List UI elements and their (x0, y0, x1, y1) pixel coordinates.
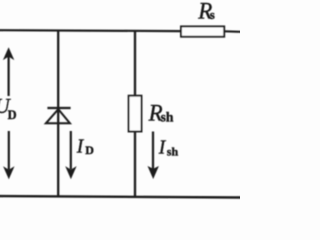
svg-text:sh: sh (167, 145, 179, 159)
diode D cathode bar (47, 107, 70, 109)
svg-text:sh: sh (161, 110, 174, 125)
I_D down arrow shaft (70, 131, 72, 169)
U_D up arrow shaft (8, 56, 10, 96)
diode D triangle (46, 109, 70, 123)
svg-text:I: I (76, 137, 85, 158)
wire top rail left segment (0, 29, 181, 32)
resistor R_s box (181, 26, 224, 36)
wire Rsh branch vertical bottom (134, 132, 136, 198)
svg-text:s: s (210, 7, 215, 22)
resistor R_sh box (129, 96, 142, 132)
I_D down arrow head (65, 166, 76, 179)
U_D down arrow head (3, 166, 14, 179)
wire bottom rail (0, 196, 241, 197)
U_D up arrow head (3, 47, 14, 60)
U_D down arrow shaft (8, 131, 10, 170)
wire top rail right segment (225, 30, 241, 33)
wire Rsh branch vertical top (134, 30, 136, 96)
svg-text:D: D (85, 143, 94, 157)
I_sh down arrow head (148, 166, 159, 179)
wire diode branch vertical (57, 30, 59, 197)
svg-text:I: I (158, 138, 167, 159)
I_sh down arrow shaft (152, 132, 154, 170)
svg-text:D: D (8, 108, 17, 122)
